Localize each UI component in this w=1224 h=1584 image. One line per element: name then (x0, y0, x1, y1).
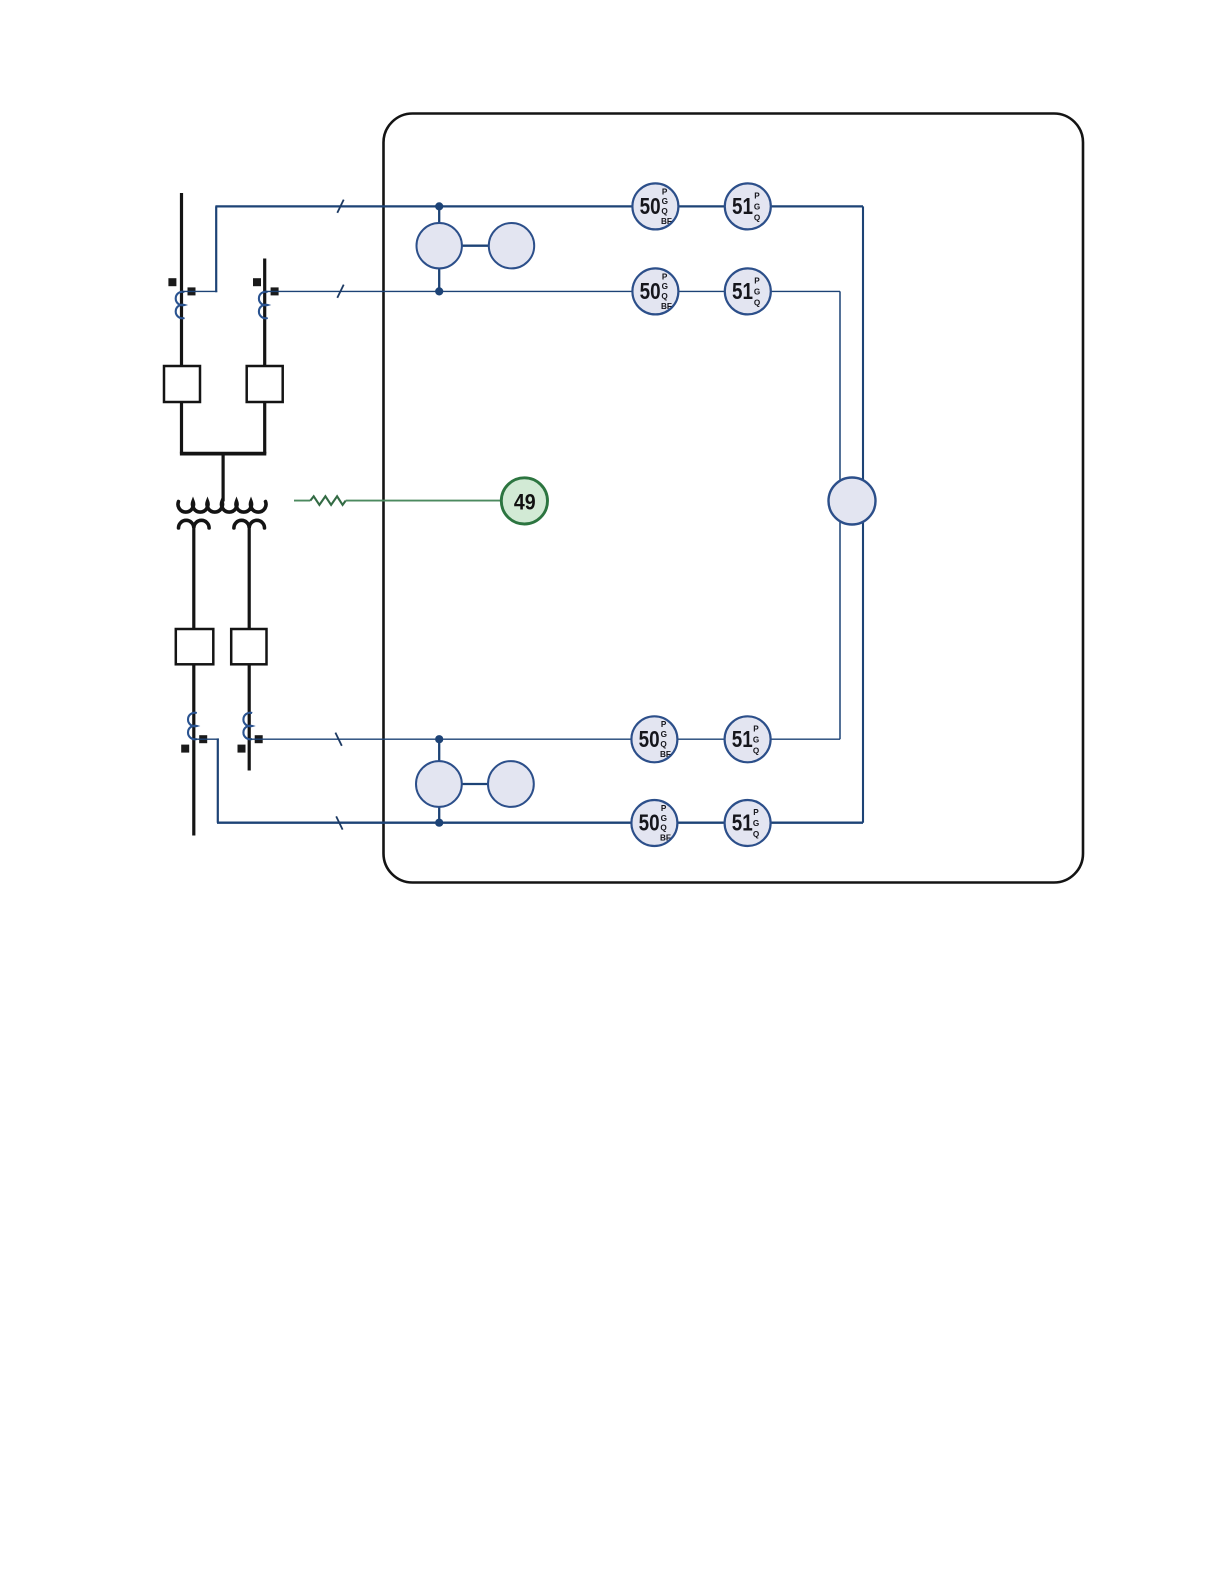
svg-text:Q: Q (661, 207, 668, 216)
svg-text:50: 50 (639, 810, 660, 836)
svg-text:50: 50 (639, 726, 660, 752)
svg-text:G: G (754, 203, 760, 212)
svg-text:49: 49 (514, 489, 536, 514)
svg-text:Q: Q (754, 299, 761, 308)
svg-text:P: P (753, 808, 759, 817)
svg-text:51: 51 (732, 726, 753, 752)
svg-text:Q: Q (660, 824, 667, 833)
svg-text:Q: Q (753, 830, 760, 839)
svg-text:Q: Q (754, 214, 761, 223)
svg-text:51: 51 (732, 278, 753, 304)
svg-text:P: P (662, 187, 668, 196)
svg-text:G: G (661, 730, 667, 739)
svg-text:G: G (753, 736, 759, 745)
svg-text:P: P (754, 276, 760, 285)
svg-text:51: 51 (732, 810, 753, 836)
svg-text:P: P (754, 191, 760, 200)
svg-text:P: P (662, 272, 668, 281)
svg-text:G: G (661, 814, 667, 823)
svg-text:BF: BF (661, 217, 672, 226)
svg-text:BF: BF (660, 750, 671, 759)
svg-text:P: P (661, 720, 667, 729)
svg-text:50: 50 (640, 278, 661, 304)
svg-text:50: 50 (640, 193, 661, 219)
svg-text:G: G (754, 288, 760, 297)
svg-text:P: P (661, 804, 667, 813)
svg-text:51: 51 (732, 193, 753, 219)
svg-text:P: P (753, 724, 759, 733)
svg-text:Q: Q (753, 747, 760, 756)
svg-text:Q: Q (660, 740, 667, 749)
svg-text:BF: BF (660, 834, 671, 843)
svg-text:G: G (662, 197, 668, 206)
svg-text:G: G (753, 819, 759, 828)
svg-text:Q: Q (661, 292, 668, 301)
svg-text:BF: BF (661, 302, 672, 311)
svg-text:G: G (662, 282, 668, 291)
